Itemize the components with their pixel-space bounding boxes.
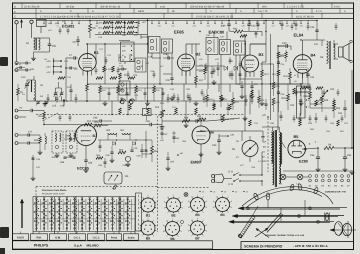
osc grid wire (65, 58, 67, 101)
svg-text:u16: u16 (230, 134, 235, 137)
svg-text:C99: C99 (212, 144, 217, 147)
keyboard dashed enclosure top (36, 186, 158, 188)
top bus pin stubs (43, 21, 45, 24)
mains plug (211, 174, 214, 177)
resistor R5 grid (89, 24, 92, 32)
cap C39 (227, 23, 230, 25)
svg-text:7: 7 (142, 212, 143, 215)
scan blob left edge upper (0, 57, 8, 66)
svg-text:S2B: S2B (30, 68, 35, 71)
svg-text:2: 2 (179, 196, 180, 199)
svg-text:ECH81: ECH81 (62, 24, 75, 29)
tall box C53 (297, 86, 306, 118)
svg-text:B5: B5 (294, 134, 300, 139)
svg-text:EABC80: EABC80 (209, 29, 226, 34)
narrow strip box right of keyboard (136, 193, 142, 231)
trimmer C6 (48, 43, 52, 45)
trimmer C15 (54, 92, 57, 94)
cap C28 left of B2 (167, 56, 169, 59)
wire det out (142, 153, 152, 155)
svg-text:C90: C90 (146, 120, 151, 123)
AGC bus y84 (87, 83, 196, 85)
svg-text:2: 2 (203, 195, 204, 198)
svg-text:C97: C97 (170, 161, 175, 164)
svg-text:1: 1 (148, 217, 149, 220)
svg-text:u4: u4 (57, 25, 59, 28)
svg-text:R40: R40 (34, 139, 39, 142)
svg-text:R29: R29 (324, 99, 329, 102)
svg-text:1: 1 (222, 194, 223, 197)
svg-text:b 7.5: b 7.5 (316, 10, 322, 13)
right stack cap C44b (277, 61, 280, 63)
FM tuner coil box 1 (52, 131, 63, 153)
cap C86 (84, 159, 87, 161)
svg-text:8: 8 (163, 230, 164, 233)
svg-text:C16: C16 (60, 105, 65, 108)
resistor R30 (309, 92, 312, 99)
switch label box O.C.2 (88, 234, 105, 240)
tuning capacitor C13 with arrow (25, 83, 29, 85)
right horizontals (274, 63, 302, 65)
diodes ratio det (113, 142, 116, 146)
tube B3 EABC80 envelope (242, 55, 259, 72)
svg-text:3: 3 (157, 201, 158, 204)
dial pointer upper line (253, 206, 259, 216)
svg-text:10: 10 (191, 195, 193, 198)
padder caps row (69, 89, 72, 91)
power transformer S10 primary (273, 131, 274, 166)
wire B2 cathode (185, 71, 187, 84)
svg-text:7: 7 (166, 235, 167, 238)
top caps row (257, 23, 260, 25)
power transformer tert (279, 168, 280, 184)
FM tuner coil box 2 (66, 131, 77, 153)
pilot lamp L1 (280, 174, 286, 180)
svg-text:B3: B3 (195, 213, 199, 217)
svg-text:B7: B7 (195, 236, 199, 240)
speaker terminals (350, 40, 353, 43)
resistor R8 (43, 112, 46, 119)
output transformer secondary (334, 44, 336, 59)
wires S2 (34, 37, 50, 39)
right area resistor R26 (272, 98, 275, 105)
svg-text:+: + (309, 142, 311, 146)
cap C90 (149, 123, 151, 127)
electrolytic C63 (317, 148, 319, 157)
wire B2 anode (185, 44, 187, 54)
svg-text:B2: B2 (196, 52, 202, 57)
transformer top wires (272, 127, 274, 131)
svg-text:Fono: Fono (111, 237, 118, 240)
vertical feed x147.5 (147, 19, 149, 62)
phono jacks (15, 109, 18, 112)
svg-text:u10: u10 (47, 60, 52, 63)
dial top pulley c (298, 183, 303, 190)
svg-text:41 61 97 98 3 b: 41 61 97 98 3 b (296, 15, 315, 18)
resistor R3 cathode (86, 84, 89, 91)
svg-text:9: 9 (138, 201, 139, 204)
svg-text:R31: R31 (284, 75, 289, 78)
cap C5 (76, 39, 79, 41)
svg-text:5: 5 (179, 212, 180, 215)
svg-text:C98: C98 (93, 117, 98, 120)
cap C44 bypass (306, 73, 309, 75)
svg-text:u3: u3 (43, 25, 45, 28)
svg-text:TO: TO (232, 148, 235, 151)
svg-text:u14: u14 (221, 25, 224, 28)
svg-text:u11: u11 (172, 25, 175, 28)
svg-text:9: 9 (163, 224, 164, 227)
ground B6 (200, 152, 202, 154)
svg-text:10: 10 (191, 219, 193, 222)
header rule 3 (13, 17, 354, 19)
output transformer S9 primary (327, 41, 329, 63)
svg-text:COMANDO GR - FM: COMANDO GR - FM (325, 191, 346, 194)
ground C97 (167, 166, 169, 168)
svg-text:49 b: 49 b (262, 5, 268, 8)
tone caps (213, 103, 216, 105)
svg-text:2: 2 (228, 195, 229, 198)
svg-text:7: 7 (191, 211, 192, 214)
detector ground (213, 80, 215, 82)
keyboard top line (33, 196, 135, 198)
cap on jack wires (25, 62, 27, 65)
junction dot cluster (104, 43, 105, 44)
svg-text:C45: C45 (282, 42, 287, 45)
tube B6 EM80 envelope (192, 126, 210, 144)
cap C22 (30, 109, 32, 112)
lamp icon near sockets (184, 193, 188, 197)
switch label box Fono (107, 234, 122, 240)
keyboard separators (32, 197, 34, 234)
tube B5 EZ80 envelope (288, 140, 306, 158)
svg-text:a 42: a 42 (160, 5, 166, 8)
svg-text:O.C.2: O.C.2 (93, 237, 100, 240)
resistor R1 left (17, 88, 20, 95)
svg-text:5: 5 (203, 211, 204, 214)
svg-text:u19: u19 (300, 25, 303, 28)
IF can S32 (220, 40, 231, 55)
svg-text:9: 9 (213, 200, 214, 203)
node u8 (177, 154, 179, 156)
cap C46 top (315, 29, 318, 31)
svg-text:Posizione Onda Media: Posizione Onda Media (42, 189, 67, 192)
junction dots HT (317, 147, 319, 149)
svg-text:25-30 30a 39: 25-30 30a 39 (24, 5, 40, 8)
svg-text:4: 4 (231, 206, 232, 209)
svg-text:4: 4 (181, 230, 182, 233)
resistor R22 (285, 52, 288, 58)
IF can S6 S7 (149, 37, 161, 54)
scan blob right edge middle (355, 92, 360, 104)
switch label strip box TASTI (13, 234, 29, 240)
dial pointer end circle (238, 234, 241, 237)
heater bus wire (286, 176, 297, 178)
svg-text:5: 5 (153, 235, 154, 238)
tube B1 ECH81 envelope (79, 54, 97, 72)
title box (241, 242, 354, 250)
svg-text:2: 2 (153, 196, 154, 199)
right stack cap C49 (277, 91, 280, 93)
svg-text:3: 3 (182, 201, 183, 204)
svg-text:C47: C47 (314, 43, 319, 46)
pot R13 vertical (161, 110, 164, 118)
scan blob left edge lower (0, 227, 9, 238)
socket view B5 (141, 221, 155, 235)
dashed link to EM80 ground (158, 187, 211, 189)
script f mark below pickup (113, 185, 117, 189)
header rule 2 (13, 12, 354, 14)
cap C94 (195, 119, 197, 122)
svg-text:S10: S10 (262, 160, 267, 163)
coil S2 primary (34, 38, 36, 50)
svg-text:209 42-43a 43 43b 47-48a 49: 209 42-43a 43 43b 47-48a 49 (190, 5, 225, 8)
svg-text:5: 5 (153, 212, 154, 215)
svg-text:u12: u12 (193, 25, 196, 28)
svg-text:B5: B5 (146, 236, 150, 240)
svg-text:TASTI: TASTI (17, 237, 25, 240)
right stack lower wire (278, 100, 280, 112)
switch label box F.M. (31, 234, 48, 240)
AGC RC row (99, 86, 102, 93)
right mid caps (280, 115, 283, 117)
heater note dots (199, 191, 200, 192)
wire B1 cathode down (86, 71, 88, 84)
vertical x266 (265, 21, 267, 63)
FM left column extras (32, 155, 34, 176)
small rc pair right of R24 (255, 32, 258, 34)
detector caps lower (231, 73, 234, 75)
svg-text:S.p.A: S.p.A (74, 244, 83, 248)
svg-text:C53: C53 (290, 104, 295, 107)
svg-text:3: 3 (231, 200, 232, 203)
svg-text:MILANO: MILANO (87, 244, 100, 248)
svg-text:O.C.1: O.C.1 (74, 237, 81, 240)
air coil spiral a (120, 99, 126, 104)
volume resistor R27 (261, 70, 264, 77)
svg-text:I-O: I-O (19, 107, 22, 110)
switch contacts u10 u12 u14 (53, 60, 54, 61)
svg-text:1: 1 (197, 194, 198, 197)
wire B1 anode up (86, 44, 88, 54)
right area resistor R25 (272, 82, 275, 89)
svg-text:u18: u18 (286, 25, 289, 28)
svg-text:u7: u7 (110, 25, 112, 28)
detector diode b (234, 66, 238, 70)
left jack pair upper (15, 62, 18, 65)
cap C9 (69, 67, 71, 70)
svg-text:u15: u15 (242, 25, 245, 28)
svg-text:5: 5 (178, 235, 179, 238)
texture caps (59, 29, 62, 31)
svg-text:B4: B4 (311, 53, 317, 58)
ground S2 (33, 56, 35, 58)
svg-text:C15: C15 (52, 105, 57, 108)
oscillator coil S4 (34, 92, 36, 101)
svg-text:R51: R51 (95, 121, 100, 124)
IF can lower pair (135, 58, 146, 72)
detector wire y66 (196, 65, 224, 67)
AGC caps row (108, 92, 111, 94)
svg-text:S51: S51 (120, 129, 125, 132)
caps C40 C41 (240, 85, 243, 87)
svg-text:4: 4 (206, 206, 207, 209)
svg-text:u5: u5 (71, 25, 73, 28)
resistor R33 (333, 104, 336, 111)
svg-text:Posizione Onde Corte: Posizione Onde Corte (42, 193, 65, 196)
dial small pulleys on cords (247, 207, 250, 210)
FM trimmers (64, 156, 67, 158)
svg-text:I1 I3: I1 I3 (228, 183, 233, 186)
texture resistors horizontal (110, 77, 117, 80)
resistor R51 (94, 124, 102, 127)
svg-text:8: 8 (213, 206, 214, 209)
cap C88 (110, 151, 113, 153)
texture grounds (104, 101, 106, 103)
svg-text:7: 7 (167, 212, 168, 215)
dial cord curve lower (246, 190, 322, 208)
resistor R32 horizontal (198, 118, 206, 121)
cap C32 (247, 23, 250, 25)
HT vertical right x352 (351, 70, 353, 148)
svg-text:3: 3 (181, 224, 182, 227)
svg-text:B: B (14, 5, 16, 8)
svg-text:8: 8 (188, 206, 189, 209)
cap C97 (166, 157, 169, 159)
svg-text:2: 2 (203, 219, 204, 222)
dial top pulley a (253, 193, 259, 201)
svg-text:S5A: S5A (262, 141, 267, 144)
svg-text:C44: C44 (310, 76, 315, 79)
texture resistors vertical (251, 90, 254, 96)
svg-text:PHILIPS: PHILIPS (34, 244, 49, 248)
FM antenna terminals (15, 134, 18, 137)
svg-text:30-33a: 30-33a (66, 5, 75, 8)
svg-text:4: 4 (157, 230, 158, 233)
socket view B4 (216, 198, 230, 212)
B5 output wire (306, 148, 319, 149)
svg-text:R54: R54 (154, 150, 159, 153)
svg-text:S28: S28 (60, 161, 65, 164)
left area pins u1 u2 (16, 63, 17, 64)
svg-text:S9: S9 (320, 56, 324, 59)
header row ticks (21, 3, 23, 8)
svg-text:R32: R32 (197, 115, 202, 118)
svg-text:u8: u8 (124, 25, 126, 28)
svg-text:F.M.: F.M. (36, 237, 41, 240)
coupling cap C45 (285, 44, 287, 48)
svg-text:2: 2 (153, 219, 154, 222)
keyboard horizontal bars (33, 204, 135, 206)
svg-text:R4: R4 (328, 144, 332, 147)
svg-text:C85: C85 (65, 135, 70, 138)
svg-text:C54: C54 (338, 112, 343, 115)
svg-text:B3: B3 (259, 52, 265, 57)
RC ladder verticals (111, 21, 113, 35)
svg-text:R33: R33 (336, 107, 341, 110)
power transformer primary inner (271, 132, 272, 163)
trimmer C16 (60, 92, 63, 94)
ground det (127, 162, 129, 164)
resistor R53 (118, 151, 126, 154)
svg-text:37 05 28 32b 27 38 14 91 25: 37 05 28 32b 27 38 14 91 25 52 (196, 15, 233, 18)
svg-text:3: 3 (206, 200, 207, 203)
svg-text:2: 2 (178, 219, 179, 222)
svg-text:u10: u10 (158, 25, 161, 28)
ground B7 (85, 168, 87, 170)
svg-text:C13: C13 (21, 76, 26, 79)
tube B2 EF85 envelope (178, 54, 195, 71)
dial diagonal shaft (265, 213, 281, 231)
svg-text:7: 7 (191, 235, 192, 238)
speaker (339, 47, 344, 57)
junction dots B1 (86, 43, 88, 45)
rotary top loop wire (242, 130, 263, 132)
svg-text:R30: R30 (304, 95, 309, 98)
svg-text:B1: B1 (146, 213, 150, 217)
output transformer core (329, 41, 331, 69)
vertical main x245 (244, 34, 246, 115)
electrolytic C64 (340, 147, 345, 149)
svg-text:3: 3 (157, 224, 158, 227)
switch label box O.C.1 (69, 234, 86, 240)
keyboard column top ticks (35, 196, 37, 198)
svg-text:EF85: EF85 (174, 30, 185, 35)
B4 cathode wire (302, 73, 304, 84)
grid cap C7 (73, 56, 75, 59)
svg-text:C41: C41 (254, 83, 259, 86)
wire B3 anode up (249, 44, 251, 55)
cap C72 (27, 141, 29, 144)
socket view B2 (167, 198, 181, 212)
trimmer cluster C17 C18 (36, 101, 39, 103)
resistor R24 (234, 30, 243, 33)
svg-text:u6: u6 (96, 25, 98, 28)
svg-text:C6: C6 (52, 44, 56, 48)
FM strip extra caps (161, 132, 164, 134)
svg-text:B4: B4 (220, 213, 224, 217)
svg-text:S50: S50 (106, 129, 111, 132)
grounds C63 C64 (317, 167, 319, 169)
power transformer core (274, 130, 276, 187)
FM dipole terminal (15, 21, 18, 24)
keyboard direction arrow (21, 200, 23, 228)
coil S19 (45, 136, 46, 144)
AF vertical x278 (277, 46, 279, 130)
socket view B6 (166, 222, 180, 236)
dial drum crosshair (330, 229, 356, 231)
svg-text:3: 3 (206, 224, 207, 227)
cap C71 (27, 133, 29, 136)
vertical x270 right area (270, 34, 272, 120)
heater top wire (283, 170, 351, 172)
svg-text:8: 8 (188, 230, 189, 233)
svg-text:7: 7 (142, 235, 143, 238)
marker A arrow (63, 99, 65, 106)
dial drive drum ellipse pair (334, 222, 342, 236)
resistor R54 (151, 146, 154, 154)
svg-text:5 a 7 7b: 5 a 7 7b (258, 10, 268, 13)
tone network resistors (206, 95, 209, 102)
right area resistor R23 (277, 70, 280, 76)
keyboard bottom line (33, 231, 135, 233)
dial drum spokes (338, 223, 348, 236)
wires oscillator (26, 80, 28, 84)
svg-text:R17: R17 (199, 79, 204, 82)
switch label box O.M. (50, 234, 67, 240)
RC ladder rows (103, 21, 110, 24)
svg-text:R26: R26 (184, 117, 189, 120)
